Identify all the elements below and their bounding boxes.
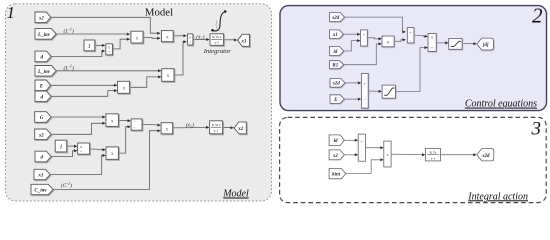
inport s2d (2) [330, 79, 345, 88]
constant 1A [84, 40, 95, 51]
sum Sa [361, 30, 368, 46]
divide S1 [188, 34, 193, 45]
wire Se to product Pe [366, 147, 382, 149]
sum Sd [361, 73, 368, 108]
product P1 [131, 31, 143, 43]
wire R1 to product Pb [344, 44, 380, 65]
svg-text:x2: x2 [237, 127, 244, 132]
svg-text:s2d: s2d [331, 16, 339, 21]
wire s2 to product P2 [51, 17, 158, 33]
wire constant 1A to divide DivA [95, 44, 104, 46]
wire P1 to product P2 [143, 37, 157, 40]
svg-text:1: 1 [7, 3, 16, 22]
product P4 [118, 81, 130, 93]
inport s2 (2) [35, 129, 51, 140]
wire P3 up to divide S1 [174, 42, 184, 75]
svg-text:ld: ld [334, 139, 338, 144]
integrator I3 (K Ts / z-1) [426, 149, 441, 161]
inport s2d [330, 13, 345, 22]
wire L_inv(2) to product P3 [56, 70, 159, 72]
inport L_inv [35, 29, 56, 40]
wire P4 to product P3 [130, 77, 160, 87]
svg-text:2: 2 [532, 4, 543, 28]
wire x1 to sum Sa [343, 33, 358, 35]
inport d [35, 51, 51, 62]
wire P7 up to sum S2 [119, 127, 129, 153]
svg-text:K Ts z: K Ts z [212, 35, 221, 39]
wire C_inv to product P6 [53, 131, 159, 190]
wire Pb to sum Sb [394, 40, 404, 42]
inport kint [329, 168, 346, 178]
sum S2 [131, 119, 142, 130]
svg-text:s2: s2 [332, 154, 338, 159]
wire constant 1B to divide DivB [67, 145, 76, 147]
inport C_inv [31, 184, 53, 194]
wire I3 to outport s2d [441, 154, 475, 156]
saturation Sat2 [449, 39, 462, 50]
inport E [35, 80, 51, 91]
inport L_inv (2) [35, 66, 56, 77]
inport d (2) [35, 91, 51, 102]
panel 2 frame (Control equations, solid) [280, 6, 547, 111]
wire DivB to product P7 [90, 148, 104, 151]
svg-text:s2: s2 [38, 16, 44, 21]
product Pe [384, 141, 391, 167]
svg-text:L_inv: L_inv [37, 33, 51, 38]
product P7 [106, 147, 118, 159]
inport s2 [35, 12, 51, 23]
divide DivA [106, 44, 113, 55]
wire d to divide DivA [51, 51, 103, 56]
wire Sa to product Pb [367, 38, 380, 39]
svg-text:ld: ld [333, 50, 337, 55]
svg-text:z-1: z-1 [215, 41, 220, 45]
svg-text:Integrator: Integrator [203, 48, 232, 55]
inport x1 [34, 169, 50, 179]
integrator I2 (K Ts z / z-1) [210, 121, 223, 134]
svg-text:G: G [40, 116, 44, 121]
svg-text:K Ts z: K Ts z [212, 123, 221, 127]
wire Sb to divide Sc [414, 35, 426, 36]
inport G [35, 112, 51, 123]
svg-text:(C-1): (C-1) [61, 181, 72, 189]
wire Sat1 up to divide Sc [395, 48, 425, 92]
svg-text:1: 1 [59, 144, 62, 151]
inport E [330, 95, 344, 104]
svg-text:x1: x1 [332, 33, 338, 38]
svg-text:E: E [333, 98, 338, 103]
product P6 [161, 123, 173, 134]
wire L_inv to product P1 [56, 33, 128, 35]
wire s2d(2) to sum Sd [345, 82, 360, 84]
inport s2 (panel 3) [329, 150, 344, 160]
wire DivA to product P1 [113, 39, 129, 49]
outport s2d (panel 3) [477, 149, 494, 161]
outport [d] [477, 38, 494, 50]
svg-text:1: 1 [88, 43, 91, 50]
svg-text:Model: Model [222, 189, 249, 200]
wire G to product P5 [51, 116, 103, 118]
svg-text:kint: kint [332, 173, 341, 178]
wire s2d to sum Sb [344, 17, 404, 32]
svg-text:Model: Model [145, 7, 173, 19]
svg-text:3: 3 [531, 119, 542, 140]
svg-text:K Ts: K Ts [430, 150, 437, 154]
wire S2 to product P6 [142, 123, 159, 126]
wire kint to product Pe [346, 160, 382, 174]
wire S1 to integrator I1 [193, 39, 208, 41]
wire d(2) to product P4 [51, 91, 115, 97]
constant 1B [55, 140, 66, 152]
svg-text:s2d: s2d [482, 154, 490, 159]
inport R1 [330, 61, 344, 69]
wire Sat2 to outport [d] [462, 43, 475, 45]
outport x1 [238, 34, 250, 46]
svg-text:z-1: z-1 [214, 129, 219, 133]
svg-text:Integral action: Integral action [467, 191, 528, 202]
wire s2 to sum Se [344, 154, 356, 156]
sum Se [358, 134, 365, 161]
outport x2 [234, 122, 246, 134]
product Pb [382, 36, 394, 47]
wire x1 to product P7 [50, 155, 103, 174]
wire ld to sum Sa [343, 41, 358, 51]
svg-text:L_inv: L_inv [37, 70, 51, 75]
inport x1 [330, 30, 344, 39]
wire I1 to outport x1 [224, 39, 235, 41]
wire P2 to divide S1 [173, 35, 184, 37]
wire P6 to integrator I2 [173, 127, 208, 129]
svg-text:C_inv: C_inv [34, 189, 47, 194]
svg-text:z-1: z-1 [431, 156, 436, 160]
integrator I1 (K Ts z / z-1) [210, 34, 224, 46]
svg-text:(ẋ₁): (ẋ₁) [196, 33, 204, 40]
inport ld (panel 3) [329, 135, 344, 146]
svg-text:R1: R1 [332, 64, 338, 69]
svg-text:x1: x1 [38, 174, 44, 179]
svg-text:s2: s2 [38, 133, 44, 138]
divide DivB [78, 143, 90, 154]
wire Pe to integrator I3 [391, 153, 423, 155]
wire d(3) to divide DivB [51, 151, 75, 157]
wire E to product P4 [51, 84, 115, 86]
svg-text:(ẋ₂): (ẋ₂) [186, 121, 194, 128]
annotation integral sign with dots [211, 10, 226, 31]
panel 3 frame (Integral action, dashed) [280, 117, 547, 202]
panel 1 frame (Model subsystem, dotted) [6, 4, 272, 201]
svg-text:[d]: [d] [483, 43, 489, 48]
saturation Sat1 [382, 85, 395, 98]
divide Sc [428, 34, 436, 52]
sum Sb [407, 28, 414, 43]
svg-text:x1: x1 [241, 39, 247, 44]
inport d (3) [35, 151, 51, 162]
wire P5 to sum S2 [119, 119, 129, 121]
inport ld [330, 47, 344, 56]
wire s2(2) to product P5 [51, 123, 103, 134]
wire E to sum Sd [344, 98, 359, 100]
svg-text:Control equations: Control equations [465, 99, 537, 110]
product P3 [162, 69, 174, 82]
wire ld to sum Se [344, 139, 356, 141]
svg-text:s2d: s2d [332, 82, 340, 87]
product P5 [106, 114, 119, 127]
wire Sc to saturation Sat2 [436, 42, 446, 44]
product P2 [161, 31, 173, 42]
wire I2 to outport x2 [223, 126, 232, 128]
svg-text:E: E [39, 84, 44, 89]
wire Sd to saturation Sat1 [368, 90, 380, 92]
